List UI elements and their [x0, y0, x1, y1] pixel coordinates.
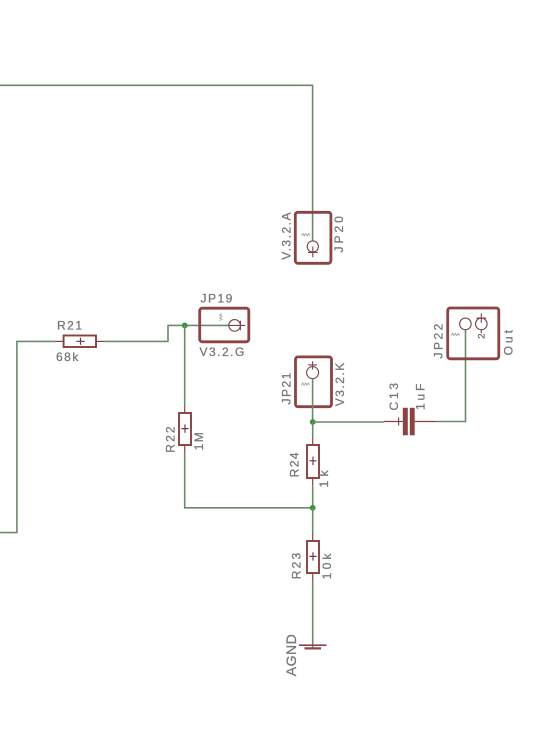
wire left vertical drop — [16, 341, 18, 533]
connector JP21 pin number 1 — [301, 383, 309, 385]
svg-text:JP22: JP22 — [432, 321, 446, 358]
resistor R24 body — [307, 445, 319, 478]
ground AGND bar 2 — [305, 647, 322, 649]
svg-text:R21: R21 — [57, 319, 84, 333]
resistor R23 origin cross — [309, 552, 316, 560]
svg-text:C13: C13 — [387, 380, 401, 410]
resistor R21 left lead — [56, 340, 64, 342]
svg-text:V3.2.G: V3.2.G — [200, 345, 246, 359]
connector JP20 pin 1 cross — [308, 247, 318, 258]
svg-text:R22: R22 — [163, 424, 177, 453]
svg-text:R23: R23 — [290, 551, 304, 580]
svg-text:10k: 10k — [320, 550, 334, 579]
junction node JP21/R24/C13 — [310, 419, 316, 425]
connector JP19 pin number 1 — [220, 314, 222, 321]
capacitor C13 right lead — [415, 421, 437, 423]
capacitor C13 left plate — [403, 408, 408, 436]
connector JP20 box — [295, 212, 331, 263]
resistor R21 right lead — [96, 340, 104, 342]
resistor R22 bottom lead — [184, 445, 186, 453]
connector JP19 pin 1 circle — [229, 320, 241, 332]
svg-text:V3.2.K: V3.2.K — [333, 361, 347, 406]
svg-text:JP19: JP19 — [201, 291, 234, 305]
resistor R22 body — [179, 413, 191, 445]
capacitor C13 origin cross — [398, 418, 400, 426]
svg-text:1uF: 1uF — [413, 381, 427, 410]
connector JP22 pin 1 circle — [460, 318, 472, 330]
resistor R22 top lead — [184, 405, 186, 413]
svg-text:AGND: AGND — [283, 634, 299, 676]
wire jog vertical — [167, 325, 169, 342]
wire R23 to ground — [312, 581, 314, 648]
resistor R24 bottom lead — [312, 478, 314, 486]
capacitor C13 right plate — [410, 408, 415, 436]
wire net V.3.2.A top horizontal — [0, 84, 313, 86]
svg-text:V.3.2.A: V.3.2.A — [279, 211, 293, 260]
svg-text:68k: 68k — [56, 350, 80, 364]
resistor R22 origin cross — [181, 424, 188, 432]
junction node R24/R23 — [310, 505, 316, 511]
resistor R24 top lead — [312, 437, 314, 445]
wire up to JP22 — [465, 330, 467, 422]
wire net to R21 from left edge — [17, 340, 56, 342]
junction node at JP19 net — [182, 323, 188, 329]
svg-text:1M: 1M — [192, 431, 206, 451]
connector JP22 pin 2 circle — [476, 318, 488, 330]
svg-text:JP21: JP21 — [279, 371, 293, 404]
connector JP21 pin 1 circle — [307, 367, 319, 379]
wire bottom-left stub — [0, 532, 18, 534]
wire across to R24 node — [184, 507, 313, 509]
connector JP21 box — [296, 357, 332, 407]
svg-text:Out: Out — [501, 327, 515, 355]
connector JP20 pin number 1 — [302, 234, 310, 236]
resistor R21 origin cross — [76, 338, 84, 345]
wire junction to R23 — [312, 508, 314, 533]
connector JP19 pin 1 cross — [229, 321, 245, 331]
resistor R23 body — [307, 541, 319, 573]
resistor R24 origin cross — [309, 457, 316, 465]
connector JP21 pin 1 cross — [308, 361, 317, 369]
wire junction to C13 — [313, 421, 384, 423]
capacitor C13 left lead — [384, 421, 403, 423]
wire net V.3.2.A vertical drop to JP20 — [312, 85, 314, 241]
wire R24 to junction — [312, 486, 314, 508]
svg-text:2: 2 — [476, 334, 487, 339]
connector JP20 pin 1 circle — [307, 241, 318, 252]
svg-text:R24: R24 — [288, 451, 302, 478]
wire into JP19 pin — [167, 324, 228, 326]
resistor R23 top lead — [312, 533, 314, 541]
connector JP22 pin 2 cross — [477, 313, 487, 333]
connector JP22 pin number 1 — [451, 333, 459, 335]
wire R22 down — [184, 453, 186, 509]
resistor R23 bottom lead — [312, 573, 314, 581]
ground AGND bar 1 — [299, 644, 327, 646]
connector JP19 box — [200, 308, 249, 342]
svg-text:1k: 1k — [317, 466, 331, 488]
wire from R21 to jog — [104, 340, 168, 342]
wire JP21 to junction — [312, 379, 314, 422]
svg-text:JP20: JP20 — [332, 213, 346, 252]
wire junction to R22 — [184, 325, 186, 405]
wire junction to R24 — [312, 422, 314, 437]
wire C13 to JP22 corner — [437, 421, 466, 423]
resistor R21 body — [64, 336, 96, 348]
connector JP22 box — [448, 308, 499, 359]
